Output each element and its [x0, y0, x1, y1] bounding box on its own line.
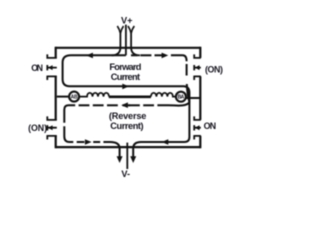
- outer rectangle left edge (gaps at transistors): [55, 47, 57, 149]
- svg-text:BA: BA: [178, 95, 185, 101]
- svg-text:V+: V+: [121, 16, 133, 26]
- svg-text:AB: AB: [71, 95, 78, 101]
- node A terminal circle: [69, 92, 79, 102]
- svg-text:Current: Current: [111, 72, 140, 82]
- arrow: forward through load (points right): [122, 84, 129, 90]
- arrow: forward bottom (points left toward V-): [162, 139, 169, 145]
- svg-text:Current): Current): [110, 121, 143, 131]
- svg-text:(Reverse: (Reverse: [109, 111, 146, 121]
- wire: reverse path solid tail into V- down arrow: [103, 142, 119, 157]
- svg-text:ON: ON: [204, 121, 217, 131]
- wire: load line right stub: [186, 97, 200, 99]
- svg-text:Forward: Forward: [109, 62, 141, 72]
- wire: V+ left feed with open down-arrow: [112, 26, 124, 55]
- arrow: reverse bottom (points right): [85, 139, 92, 145]
- svg-text:(ON): (ON): [28, 123, 47, 133]
- wire: forward current solid path (V+ left, down, across, around node B, down, bottom to V-): [63, 55, 190, 157]
- inductor right winding: [151, 93, 176, 97]
- arrow: forward top (points left): [86, 53, 93, 59]
- wire: load line left stub: [57, 96, 69, 98]
- transistor Q1 (top-left MOSFET): [47, 54, 57, 80]
- wire: V+ center feed: [125, 25, 127, 56]
- svg-text:(ON): (ON): [205, 64, 223, 74]
- svg-text:V-: V-: [121, 169, 130, 179]
- outer bridge rectangle bottom edge: [56, 146, 201, 148]
- wire: reverse current dashed path (V+ right, down, under node B, across, down, bottom to V-): [64, 55, 189, 142]
- wire: load line middle: [109, 96, 151, 99]
- arrow: reverse top (points right): [155, 54, 164, 56]
- svg-text:ON: ON: [31, 63, 43, 73]
- arrow: reverse mid (points left): [123, 104, 131, 106]
- arrow: forward exit to V- (filled down arrow): [130, 156, 136, 163]
- outer bridge rectangle top edge: [56, 47, 201, 49]
- inductor left winding: [80, 93, 109, 97]
- wire: V+ right feed with open down-arrow: [128, 26, 140, 55]
- transistor Q2 (top-right MOSFET): [194, 54, 201, 80]
- wire: V- center lead: [126, 143, 128, 169]
- node B terminal circle: [176, 92, 186, 102]
- transistor Q4 (bottom-right MOSFET): [194, 116, 201, 139]
- outer rectangle right edge (gaps at transistors): [199, 47, 201, 149]
- transistor Q3 (bottom-left MOSFET): [47, 116, 57, 139]
- arrow: reverse exit to V- (filled down arrow): [117, 156, 123, 163]
